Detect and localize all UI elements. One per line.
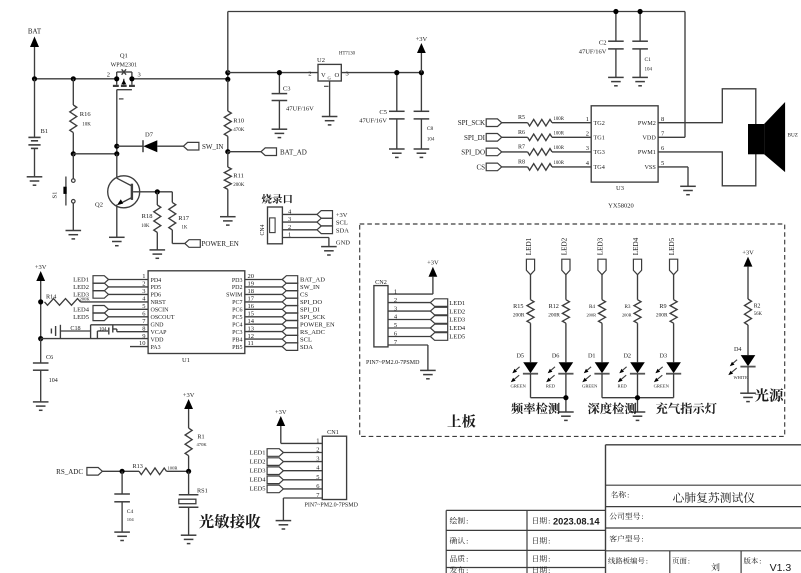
wire Q1 gate down [116,90,118,154]
svg-text:+3V: +3V [336,212,348,219]
net tag LED2 (CN2) [388,307,465,315]
svg-text:SW_IN: SW_IN [300,284,320,291]
svg-text:O: O [335,72,340,79]
svg-text::: : [548,517,550,526]
net tag POWER_EN (U1) [245,320,335,328]
svg-text:LED5: LED5 [668,237,676,255]
node C2 [613,9,618,14]
svg-text:BAT: BAT [28,28,42,36]
CN2 pin 7 [394,339,398,346]
BAT arrow [30,37,39,79]
svg-text::: : [642,512,644,521]
CN4 pin 4 [282,208,317,215]
node VDD wire [38,336,43,341]
svg-text:S1: S1 [52,192,59,199]
net tag LED1 (CN2) [388,299,465,307]
svg-text:2: 2 [107,72,110,79]
svg-text::: : [627,491,629,500]
svg-text:SCL: SCL [336,220,348,227]
CN1 pin7 wire [283,498,322,521]
wire main rail [35,78,228,80]
CN4 pin 1 [282,232,329,239]
node rail jog bottom [225,77,230,82]
wire VDD U1 [41,338,148,340]
resistor R12 200R [548,300,569,363]
svg-text:LED4: LED4 [632,237,640,255]
node rail jog top [225,70,230,75]
capacitor C3 [272,73,315,130]
net tag LED4 (CN2) [388,324,466,332]
svg-text:TG1: TG1 [594,135,605,142]
svg-text:PD4: PD4 [151,278,162,284]
net tag LED3 (CN1) [250,467,323,475]
svg-text:NRST: NRST [151,300,167,306]
node divider [225,149,230,154]
node Q1 pin2 [114,76,119,81]
svg-text:200R: 200R [622,313,632,318]
svg-text:R18: R18 [142,213,153,220]
net tag SPI_DI (U1) [245,306,320,314]
svg-text:C4: C4 [127,509,134,515]
ground C1 [632,77,648,85]
svg-text:D6: D6 [552,353,560,360]
svg-text:B1: B1 [41,128,49,135]
svg-text::: : [466,517,468,526]
svg-text:PD3: PD3 [232,278,243,284]
node battery rail [32,76,37,81]
diode D7 [117,132,184,153]
svg-text:BAT_AD: BAT_AD [280,148,307,156]
node Q1 pin3 [129,76,134,81]
title 线路板编号 [608,557,648,566]
svg-text:Q1: Q1 [120,53,128,60]
CN2 pin 3 [394,305,397,312]
ground U2 [322,117,338,125]
net tag LED5 (CN2) [388,333,465,341]
svg-text::: : [642,535,644,544]
svg-text:C18: C18 [70,325,80,332]
svg-text:3: 3 [138,72,141,79]
svg-text:104: 104 [127,517,135,522]
svg-text:V: V [321,72,326,79]
title 客户型号 [610,535,644,544]
svg-text:200R: 200R [586,313,596,318]
svg-text:SPI_DO: SPI_DO [461,148,485,156]
svg-text:104: 104 [49,378,58,384]
node R13 right [186,469,191,474]
node C8 [419,70,424,75]
svg-text:R6: R6 [518,130,525,136]
svg-text::: : [548,566,550,573]
svg-text:SDA: SDA [300,344,313,351]
CN4 pin 3 [282,216,317,223]
CN2 pin 2 [394,297,397,304]
svg-text:R2: R2 [754,304,761,310]
title 确认 [450,537,469,546]
node R14 [38,299,43,304]
svg-text:8: 8 [661,116,664,123]
wire CN4 gnd [329,238,350,247]
capacitor C2 [579,12,624,78]
net tag SCL (U1) [245,335,312,343]
wire to BAT_AD tag [228,151,261,153]
title 版本 [744,557,762,566]
node C3 [277,70,282,75]
CN2 pin 5 [394,322,397,329]
svg-text:100R: 100R [554,117,565,122]
svg-text:PWM2: PWM2 [638,120,656,127]
svg-text:LED3: LED3 [250,468,266,475]
svg-text:470K: 470K [233,128,245,133]
wire VDD pin7 [658,136,685,138]
svg-text:C6: C6 [46,354,53,361]
svg-text:R4: R4 [589,304,595,310]
net tag LED4 (CN1) [250,476,323,484]
resistor R13 [133,463,189,475]
svg-text:+3V: +3V [35,264,47,271]
title block table [446,445,801,573]
svg-text:WHITE: WHITE [734,375,748,380]
svg-text:D5: D5 [516,353,524,360]
svg-text:D2: D2 [623,353,631,360]
svg-text:C2: C2 [599,40,607,47]
ground CN1 [276,521,292,529]
svg-text:GND: GND [151,323,165,329]
title 名称 [611,491,629,500]
net tag LED3 (U1) [73,291,148,299]
svg-text:PB5: PB5 [232,345,242,351]
resistor R14 [45,294,149,306]
switch S1 [52,154,76,231]
svg-text:PWM1: PWM1 [638,149,656,156]
svg-text:R11: R11 [233,173,244,180]
ground C5 [389,149,405,157]
svg-text:LED1: LED1 [449,300,465,307]
net tag RS_ADC [56,468,139,477]
LED D2 RED [618,353,646,398]
svg-text:LED3: LED3 [449,317,465,324]
CN4 pin 2 [282,224,317,231]
connector CN1 [322,429,346,500]
svg-text:200K: 200K [233,183,245,188]
title 心肺复苏测试仪 [673,492,755,503]
CN2 pin 4 [394,314,398,321]
net tag SPI_SCK (U1) [245,313,326,321]
svg-text:PC4: PC4 [232,323,242,329]
capacitor C18 [51,325,148,339]
svg-text:RED: RED [618,384,628,389]
svg-text:U1: U1 [182,357,190,364]
svg-text::: : [688,557,690,566]
net tag LED2 (top) [560,237,570,299]
net tag BAT_AD [261,148,307,156]
svg-text:PD6: PD6 [151,293,162,299]
CN1 pin 7 [316,492,320,499]
svg-text:3: 3 [586,145,589,152]
resistor R9 200R [656,300,677,363]
node C5 [394,70,399,75]
svg-text:R9: R9 [659,303,666,310]
resistor R18 [141,192,161,250]
label 光源 [755,388,783,402]
CN1 pin 4 [316,465,320,472]
CN1 pin 2 [316,447,319,454]
regulator U2 HT7130 [308,52,355,117]
label PIN7-PM2.0-7PSMD (CN1) [305,503,359,509]
svg-text:HT7130: HT7130 [339,52,356,57]
resistor R11 [224,152,245,217]
svg-text:LED3: LED3 [597,237,605,255]
svg-text:LED5: LED5 [449,334,465,341]
svg-text:RS_ADC: RS_ADC [300,329,325,336]
capacitor C4 [114,471,134,532]
resistor R10 [224,80,245,152]
+3V arrow D4 [742,250,754,299]
svg-text:PC7: PC7 [232,300,242,306]
connector CN4 [260,207,282,244]
svg-text:LED4: LED4 [250,477,267,484]
svg-text:SCL: SCL [300,336,312,343]
svg-text:LED1: LED1 [525,237,533,255]
resistor R15 200R [513,300,534,363]
ground R11 [220,217,236,225]
svg-text:200R: 200R [548,313,560,319]
svg-text::: : [759,557,761,566]
svg-text:PIN7~PM2.0-7PSMD: PIN7~PM2.0-7PSMD [366,360,420,366]
svg-text:SPI_SCK: SPI_SCK [300,314,326,321]
title V1.3 [770,562,792,573]
photoresistor RS1 [179,471,208,535]
svg-text:104: 104 [427,138,435,143]
svg-text:V1.3: V1.3 [770,562,792,573]
svg-text:200R: 200R [656,313,668,319]
svg-text:CN2: CN2 [375,279,387,286]
svg-text:R17: R17 [178,215,190,222]
CN2 pin 6 [394,331,398,338]
ground group1 [558,412,574,420]
wire Q2 base [133,191,172,193]
resistor R16 [70,79,92,154]
svg-text:VCAP: VCAP [151,330,168,336]
svg-text:10K: 10K [141,224,150,229]
net tag SPI_DO (U1) [245,298,323,306]
wire R16-gate [73,153,117,155]
svg-text:D7: D7 [145,132,154,139]
svg-text:U2: U2 [317,57,325,64]
svg-text:C1: C1 [645,57,652,63]
svg-text:PIN7~PM2.0-7PSMD: PIN7~PM2.0-7PSMD [305,503,359,509]
net tag SPI_SCK [458,119,502,127]
svg-text:R12: R12 [549,303,559,310]
svg-text::: : [646,557,648,566]
LED D5 GREEN [511,353,539,398]
ground C2 [608,77,624,85]
LED D6 RED [546,353,574,398]
svg-text:PD5: PD5 [151,285,162,291]
title 日期 row3 [533,555,550,564]
svg-text::: : [548,555,550,564]
svg-text:D1: D1 [588,353,596,360]
title 日期 row2 [533,537,550,546]
svg-text:+3V: +3V [742,250,754,257]
svg-text:SPI_SCK: SPI_SCK [458,119,485,127]
ground CN4 [321,247,337,255]
svg-text:200R: 200R [513,313,525,319]
capacitor C5 [359,73,404,149]
title 刘 [711,563,719,571]
LED D3 GREEN [654,353,682,398]
svg-text:C3: C3 [283,86,291,93]
svg-text:R15: R15 [513,303,523,310]
svg-text:SWIM: SWIM [226,293,243,299]
svg-text:SPI_DO: SPI_DO [300,299,322,306]
wire pin10 stub [130,346,148,348]
ground C8 [414,149,430,157]
title 页面 [672,557,690,566]
svg-text:+3V: +3V [275,409,287,416]
net tag LED1 (CN1) [250,449,323,457]
LED D1 GREEN [582,353,610,398]
svg-text:YX58020: YX58020 [608,203,634,210]
node R13 left [120,469,125,474]
svg-text::: : [466,537,468,546]
svg-text:R10: R10 [233,118,244,125]
svg-text:RED: RED [546,384,556,389]
svg-text:RS_ADC: RS_ADC [56,468,83,476]
ground C4 [114,532,130,540]
svg-text:LED1: LED1 [73,277,89,284]
CN2 pin 1 [394,288,397,295]
net label BAT [28,28,42,36]
ground Q2 emitter [109,237,125,245]
svg-text:+3V: +3V [183,392,195,399]
svg-text:100R: 100R [554,161,565,166]
svg-text:PC3: PC3 [232,330,242,336]
IC U3 YX58020 [586,106,665,210]
svg-text:10K: 10K [82,123,91,128]
svg-text::: : [466,555,468,564]
net tag +3V (CN4) [317,211,348,219]
net tag SW_IN [183,142,223,150]
transistor Q1 WPM2301 [107,53,141,99]
svg-text:56K: 56K [754,312,763,317]
svg-text:CN4: CN4 [260,224,266,235]
svg-text:100R: 100R [168,466,179,471]
title 公司型号 [610,512,644,521]
svg-text:200K: 200K [80,297,91,302]
svg-text:SDA: SDA [336,227,349,234]
net tag LED1 (U1) [73,276,148,284]
ground RS1 [181,535,197,543]
net tag LED1 (top) [525,237,535,299]
net tag LED3 (CN2) [388,316,465,324]
buzzer BUZ [748,102,798,172]
net tag SW_IN (U1) [245,283,320,291]
node group1 [563,395,568,400]
wire rail to U2 [228,72,318,74]
node R16 bottom [71,151,76,156]
svg-text:R1: R1 [197,434,204,441]
svg-text:R5: R5 [518,115,525,121]
net tag CS [476,163,501,171]
svg-text:1K: 1K [182,226,188,231]
CN1 pin 1 [316,437,319,444]
IC U1 MCU [139,271,255,364]
svg-text:5: 5 [661,160,664,167]
svg-text:1: 1 [586,116,589,123]
svg-text:RS1: RS1 [197,488,208,495]
net tag LED3 (top) [597,237,607,299]
svg-text:2: 2 [586,131,589,138]
resistor R7 100R [502,144,592,155]
ground R18 [150,250,166,258]
dashed box 上板 [360,224,785,436]
svg-text:LED2: LED2 [73,284,89,291]
CN1 pin 6 [316,483,320,490]
svg-text:PA3: PA3 [151,345,161,351]
svg-text:D4: D4 [734,346,742,353]
net tag LED2 (U1) [73,283,148,291]
net tag POWER_EN [185,240,239,248]
svg-text:Q2: Q2 [95,202,103,209]
svg-text:47UF/16V: 47UF/16V [579,49,607,56]
svg-text:PD2: PD2 [232,285,243,291]
svg-text:LED2: LED2 [560,237,568,255]
svg-text:POWER_EN: POWER_EN [202,240,239,248]
svg-text:LED1: LED1 [250,449,266,456]
+3V arrow R1 [183,392,195,428]
net tag CS (U1) [245,291,309,299]
transistor Q2 [95,154,140,238]
ground group2 [630,412,646,420]
ground VSS [680,186,696,194]
net tag SPI_DO [461,148,501,156]
CN1 pin 3 [316,456,319,463]
connector CN2 [374,279,388,347]
svg-text:R14: R14 [46,294,56,301]
svg-text:SPI_DI: SPI_DI [464,134,486,142]
+3V arrow CN2 [427,260,439,294]
svg-text:2: 2 [308,71,311,78]
svg-text:CN1: CN1 [327,429,339,436]
svg-text:OSCOUT: OSCOUT [151,315,175,321]
svg-text:100R: 100R [554,132,565,137]
capacitor C6 [33,339,58,402]
svg-text:C8: C8 [427,126,434,132]
svg-text:104: 104 [99,328,107,333]
svg-text:LED2: LED2 [449,308,465,315]
title 日期 2023.08.14 [533,517,600,527]
ground S1 [66,231,82,239]
svg-text:OSCIN: OSCIN [151,308,170,314]
svg-text:WPM2301: WPM2301 [111,63,137,69]
title 日期 row4 [533,566,550,573]
net tag SDA (CN4) [317,226,349,234]
svg-text:LED4: LED4 [73,307,90,314]
svg-text:GREEN: GREEN [511,384,527,389]
svg-text:LED4: LED4 [449,325,466,332]
ground C3 [272,129,288,137]
resistor R2 56K [745,299,763,355]
net tag BAT_AD (U1) [245,276,325,284]
wire group1 join [531,398,566,412]
net tag SCL (CN4) [317,218,348,226]
resistor R17 [169,192,190,244]
wire buzzer loop [658,89,756,186]
label 充气指示灯 [656,402,717,414]
svg-text:PC5: PC5 [232,315,242,321]
svg-text:LED2: LED2 [250,458,266,465]
